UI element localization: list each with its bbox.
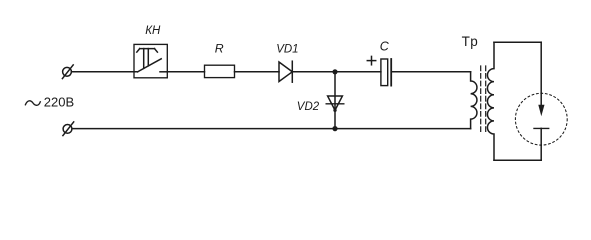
- node A (junction dot top): [332, 69, 337, 74]
- wire (KN to R): [167, 71, 204, 73]
- electrode bar inside device: [534, 128, 549, 145]
- wire (loop right, down to device): [540, 42, 542, 93]
- electrode arrow inside device: [538, 93, 544, 116]
- svg-text:VD2: VD2: [297, 101, 320, 113]
- wire (secondary loop top): [494, 41, 541, 43]
- wire (bottom: X2 to node B): [72, 128, 335, 130]
- diode VD2: [326, 72, 344, 129]
- polarity + mark: [367, 56, 375, 64]
- transformer core: [481, 66, 486, 134]
- wire (VD1 to node A): [292, 71, 335, 73]
- wire (R to VD1): [235, 71, 280, 73]
- capacitor C (electrolytic): [381, 59, 391, 86]
- terminal X2 (bottom input clamp): [63, 122, 74, 136]
- wire (secondary loop bottom): [494, 159, 541, 161]
- node B (junction dot bottom): [332, 126, 337, 131]
- wire (capacitor to transformer): [392, 71, 471, 73]
- terminal X1 (top input clamp): [62, 65, 73, 79]
- svg-text:VD1: VD1: [276, 44, 298, 56]
- wire (node A to capacitor): [335, 71, 381, 73]
- transformer Tr primary winding: [471, 72, 477, 129]
- svg-text:КН: КН: [145, 25, 161, 37]
- svg-text:R: R: [215, 41, 224, 55]
- load device (dashed circle): [515, 93, 567, 145]
- diode VD1: [279, 61, 292, 82]
- svg-text:220В: 220В: [44, 95, 74, 110]
- svg-text:C: C: [380, 39, 390, 53]
- resistor R: [205, 65, 235, 77]
- push-button switch KN: [134, 44, 167, 77]
- wire (top: X1 to KN): [72, 71, 138, 73]
- wire (node B to transformer): [335, 128, 471, 130]
- wire (device to loop bottom): [540, 145, 542, 160]
- svg-text:Тр: Тр: [462, 34, 479, 49]
- AC symbol ~: [25, 101, 40, 106]
- transformer Tr secondary winding: [487, 42, 494, 160]
